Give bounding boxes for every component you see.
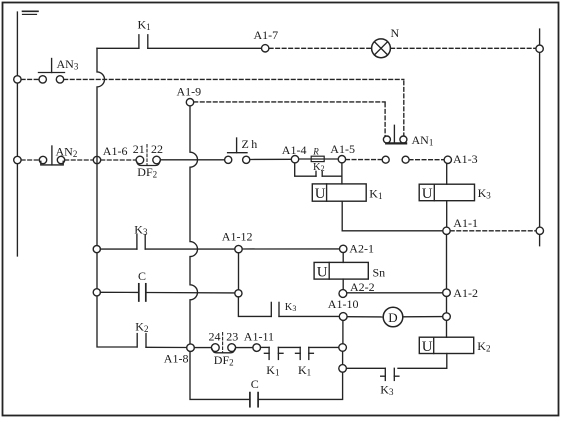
wire (x97 node to K3 contact) <box>100 248 136 250</box>
svg-text:K2: K2 <box>135 320 148 335</box>
svg-text:A1-1: A1-1 <box>453 216 478 230</box>
limit switch DF2 contact 24-23 <box>211 333 235 353</box>
lamp N <box>372 39 391 58</box>
wire (K2 to A1-5 drop) <box>322 175 341 177</box>
svg-text:24: 24 <box>209 329 221 343</box>
svg-text:K1: K1 <box>369 187 382 202</box>
svg-text:U: U <box>315 186 326 202</box>
wire (A1-1 down to A1-2) <box>446 235 448 289</box>
wire (coil K1 bottom to A1-1) <box>342 201 442 231</box>
node A1-9 <box>186 99 193 106</box>
svg-text:U: U <box>422 186 433 202</box>
wire dashed drop to AN1 right contact <box>403 81 405 136</box>
node A1-12 <box>235 245 242 252</box>
node on left bus (AN2 row) <box>14 156 21 163</box>
svg-text:K3: K3 <box>380 382 394 397</box>
svg-text:A2-2: A2-2 <box>350 280 375 294</box>
wire (A2-2 to A1-2) <box>347 292 443 294</box>
node x446 (D row) <box>443 313 451 321</box>
coil Sn <box>314 262 368 280</box>
svg-text:21: 21 <box>133 142 145 156</box>
svg-text:A1-11: A1-11 <box>244 329 274 343</box>
svg-text:A1-5: A1-5 <box>330 142 355 156</box>
node A2-1 <box>340 245 347 252</box>
coil K3 <box>419 184 474 202</box>
node A1-8 <box>187 344 195 352</box>
node x342 (A1-8 row) <box>339 344 347 352</box>
wire (A1-2 down to D row node) <box>446 297 448 313</box>
node A1-6 <box>93 156 100 163</box>
wire dashed (A1-7 to lamp) <box>269 47 371 49</box>
svg-text:AN1: AN1 <box>412 133 434 148</box>
wire (coil K2 bottom to K3 row) <box>398 354 447 369</box>
contact K3 (bottom) <box>381 368 399 380</box>
svg-text:K3: K3 <box>285 302 297 313</box>
wire dashed (AN3 to AN1 drop) <box>64 78 404 80</box>
wire dashed (A1-5 to AN1 lower left) <box>346 159 382 161</box>
svg-text:DF2: DF2 <box>214 353 234 368</box>
wire (D row node down to coil K2) <box>446 321 448 338</box>
wire (A1-8 down to bottom C loop) <box>190 352 250 400</box>
svg-text:K2: K2 <box>313 162 325 173</box>
pushbutton AN3 <box>39 59 65 84</box>
svg-text:A1-10: A1-10 <box>328 297 359 311</box>
wire dashed (bus to AN3) <box>21 78 39 80</box>
wire (A1-11 to K1 contact a) <box>261 346 270 348</box>
wire (A2-1 down to coil Sn) <box>342 253 344 263</box>
wire (K3 contact to A1-10) <box>279 315 340 317</box>
node A1-7 <box>262 45 269 52</box>
node A1-3 <box>444 156 451 163</box>
power symbol (double bar) top-left <box>23 11 39 14</box>
wire row1 (K1 to A1-7) <box>148 47 262 49</box>
wire (A1-5 down to coil K1) <box>341 163 343 184</box>
contact K2 (left, A1-8 row) <box>137 334 146 347</box>
motor D <box>383 307 403 327</box>
svg-text:AN2: AN2 <box>56 144 78 159</box>
svg-text:A1-3: A1-3 <box>453 152 478 166</box>
node on x238 (C row) <box>235 290 242 297</box>
svg-text:23: 23 <box>226 329 238 343</box>
capacitor C (bottom) <box>250 393 258 407</box>
node on x97 (K3 row) <box>93 246 100 253</box>
contact Zh <box>225 138 250 163</box>
wire dashed drop to AN1 left contact <box>384 103 386 136</box>
svg-text:A1-6: A1-6 <box>103 144 128 158</box>
svg-text:D: D <box>388 310 397 325</box>
wire (C to x238 node) <box>147 292 235 294</box>
svg-text:K3: K3 <box>134 222 148 237</box>
wire dashed (bus to AN2) <box>21 159 39 161</box>
svg-text:A1-9: A1-9 <box>177 84 202 98</box>
wire dashed (A1-1 to right bus) <box>450 230 536 232</box>
node A2-2 <box>339 290 347 298</box>
contact K1 (top row) <box>139 35 148 49</box>
svg-text:A1-2: A1-2 <box>453 286 478 300</box>
svg-text:K3: K3 <box>478 186 492 201</box>
capacitor C (left) <box>139 284 146 301</box>
wire (DF2 to A1-11) <box>236 347 253 349</box>
node A1-11 <box>253 344 261 352</box>
contact K1 a (bottom) <box>264 347 283 359</box>
node A1-10 <box>339 313 347 321</box>
pushbutton AN2 <box>39 146 64 165</box>
left bus wire <box>16 12 18 256</box>
wire (x342 node to K3 contact bottom) <box>347 367 386 369</box>
wire (A1-4 down, K2 branch) <box>295 163 316 176</box>
svg-text:A2-1: A2-1 <box>349 242 374 256</box>
wire (A1-4 to R) <box>299 158 339 160</box>
svg-text:AN3: AN3 <box>57 57 79 72</box>
svg-text:A1-4: A1-4 <box>282 143 307 157</box>
wire (C row node down and right to K3 contact) <box>238 297 271 317</box>
svg-text:K1: K1 <box>266 363 279 378</box>
wire (A1-12 to A2-1) <box>242 248 339 250</box>
wire (coil Sn down to A2-2) <box>342 279 344 290</box>
wire (Zh to A1-4) <box>250 158 291 160</box>
wire row1 left (to K1 contact) <box>97 47 139 49</box>
wire (x342 node down to K3 row node) <box>342 351 344 364</box>
svg-text:K2: K2 <box>477 339 490 354</box>
svg-text:K1: K1 <box>298 363 311 378</box>
wire (A1-10 to motor D) <box>347 316 383 318</box>
svg-text:U: U <box>422 339 433 355</box>
node A1-2 <box>443 289 451 297</box>
wire dashed (A1-9 to AN1 drop) <box>194 101 385 103</box>
wire dashed (AN1 lower right to A1-3) <box>409 159 444 161</box>
contact K2 (parallel with R) <box>316 171 322 176</box>
wire (coil K3 bottom to A1-1) <box>446 201 448 227</box>
wire (A1-8 to DF2 24) <box>194 347 211 349</box>
node on right bus (A1-1 row) <box>536 227 543 234</box>
node A1-1 <box>443 227 450 234</box>
svg-text:22: 22 <box>151 142 163 156</box>
wire (K1 a to K1 b) <box>278 346 300 348</box>
wire x97 column (row1 down to K2 contact row) <box>97 48 137 347</box>
wire (A1-3 down to coil K3) <box>446 164 448 185</box>
svg-text:C: C <box>251 377 259 391</box>
wire (K3 contact to A1-12) <box>145 248 235 250</box>
wire (K2 contact to A1-8) <box>146 346 187 348</box>
limit switch DF2 contact 21-22 <box>136 145 160 166</box>
wire (DF2 to Zh) <box>160 159 224 161</box>
svg-text:R: R <box>312 147 319 157</box>
node on left bus (AN3 row) <box>14 76 21 83</box>
svg-text:Z h: Z h <box>242 137 258 151</box>
svg-text:A1-7: A1-7 <box>254 28 279 42</box>
wire (A1-10 down to x342 node) <box>342 321 344 344</box>
wire dashed (AN2 to A1-6) <box>65 159 93 161</box>
coil K2 <box>419 337 473 355</box>
contact AN1 lower pair <box>382 156 409 163</box>
wire (C bottom to x342 column) <box>258 372 343 399</box>
svg-text:K1: K1 <box>138 18 151 33</box>
wire (x97 node to capacitor C) <box>100 291 137 293</box>
coil K1 <box>312 184 366 202</box>
wire (A1-12 down to C row node) <box>238 253 240 290</box>
wire (motor D to x446 node) <box>403 316 443 318</box>
svg-text:U: U <box>317 264 328 280</box>
pushbutton AN1 <box>383 125 407 143</box>
node A1-5 <box>338 156 345 163</box>
svg-text:C: C <box>138 269 146 283</box>
contact K3 (A1-10 row) <box>271 302 279 316</box>
wire (K1 b to x342 node) <box>309 346 339 348</box>
wire dashed (lamp to right bus) <box>391 47 536 49</box>
node on x97 (C row) <box>93 289 100 296</box>
node A1-4 <box>291 156 298 163</box>
svg-text:A1-12: A1-12 <box>222 230 253 244</box>
contact K3 (left) <box>137 235 145 250</box>
node x342 (K3 row) <box>339 365 347 373</box>
svg-text:DF2: DF2 <box>137 165 157 180</box>
wire x190 column (A1-9 down to A1-8) <box>190 106 198 344</box>
node on right bus (lamp row) <box>536 45 543 52</box>
resistor R <box>311 156 324 161</box>
svg-text:A1-8: A1-8 <box>164 351 189 365</box>
svg-text:Sn: Sn <box>373 265 386 279</box>
svg-text:N: N <box>391 26 400 40</box>
wire dashed (A1-6 to DF2) <box>101 159 136 161</box>
contact K1 b (bottom) <box>296 347 314 359</box>
right bus wire <box>539 29 541 246</box>
